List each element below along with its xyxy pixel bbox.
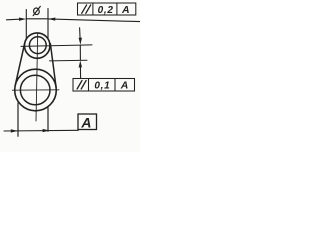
- svg-text:0,1: 0,1: [94, 81, 110, 92]
- svg-text:A: A: [121, 4, 130, 16]
- wire top dimension line: [26, 18, 48, 20]
- upper hole circle: [29, 37, 46, 54]
- left tangent side: [15, 43, 25, 86]
- arrowhead right pointing left: [48, 18, 55, 21]
- wire vertical leader middle segment: [79, 46, 81, 61]
- arrowhead at right extension pointing right: [43, 129, 50, 132]
- vertical leader upper with down arrow: [79, 28, 82, 41]
- parallelism symbol FCF1: [82, 5, 91, 13]
- svg-text:0,2: 0,2: [98, 5, 114, 16]
- bottom extension line right: [47, 108, 49, 132]
- leader line 2 from right tangent edge: [50, 59, 88, 62]
- arrowhead up: [79, 60, 82, 67]
- extension line right (tab edge): [47, 9, 49, 39]
- feature control frame FCF2: [73, 79, 135, 92]
- bottom dimension leader line: [4, 129, 78, 132]
- lower hole circle: [20, 75, 50, 105]
- extension line left (tab edge): [25, 10, 27, 40]
- upper boss outer circle: [25, 33, 50, 58]
- vertical leader lower with up arrow: [79, 65, 81, 79]
- arrowhead left pointing right: [19, 18, 26, 21]
- svg-text:A: A: [80, 114, 91, 130]
- feature control frame FCF1: [78, 3, 136, 15]
- right tangent side: [50, 44, 56, 88]
- wire left arrow tail: [7, 18, 21, 21]
- arrowhead down: [79, 38, 82, 45]
- diameter symbol: [33, 6, 40, 15]
- parallelism symbol FCF2: [77, 81, 86, 90]
- bottom extension line left: [17, 103, 19, 136]
- datum box A: [78, 114, 97, 130]
- vertical center line through both holes: [36, 33, 38, 121]
- lower hole horizontal center line: [12, 89, 59, 91]
- wire right arrow tail extending to edge: [48, 19, 140, 22]
- svg-text:A: A: [120, 80, 129, 92]
- lower boss outer circle: [15, 69, 57, 111]
- leader from upper hole centerline: [21, 45, 92, 47]
- arrowhead at left extension pointing right: [11, 129, 18, 132]
